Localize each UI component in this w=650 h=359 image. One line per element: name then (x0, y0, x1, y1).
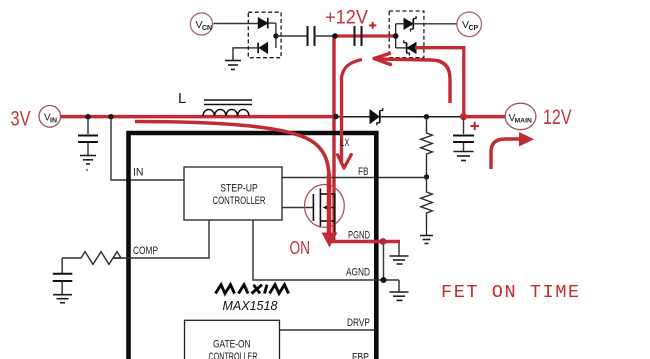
gate-on controller block U1b (185, 320, 280, 359)
step-up controller block U1a (184, 167, 282, 220)
resistor R1 (421, 117, 433, 177)
red annotation: swoosh arrowhead at PGND (322, 233, 338, 248)
capacitor C1 (308, 26, 315, 46)
svg-text:3V: 3V (11, 108, 32, 131)
ground (CIN) (80, 156, 96, 165)
inductor L coil (203, 110, 249, 116)
source VMAIN (505, 103, 536, 129)
polarity + of COUT (471, 122, 479, 130)
wire gate (282, 207, 313, 209)
ground (PGND) (390, 242, 409, 265)
capacitor COUT (453, 118, 474, 151)
diode D2a (schottky) (396, 16, 416, 31)
svg-text:+12V: +12V (325, 6, 368, 28)
dashed box charge-pump diodes D1 (248, 12, 281, 58)
svg-text:PGND: PGND (348, 230, 370, 242)
inductor L core (204, 100, 252, 105)
output node (460, 113, 467, 120)
ground (AGND) (390, 280, 409, 300)
red wire +12V node to D2 box (335, 34, 396, 37)
red wire output node to VMAIN (462, 115, 506, 119)
wire diode junction (275, 23, 277, 48)
svg-text:LX: LX (340, 137, 350, 149)
red annotation: loop arrow pointing left (379, 59, 450, 103)
rail LX to output (black) (335, 116, 464, 118)
red wire +12V node down to LX rail (332, 36, 335, 233)
svg-text:FB: FB (358, 166, 369, 178)
wire VCN to diode box (214, 23, 259, 25)
svg-text:CONTROLLER: CONTROLLER (213, 195, 266, 207)
wire DRVP (280, 329, 376, 331)
svg-text:IN: IN (133, 167, 144, 179)
red annotation: swoosh current path into FET (135, 122, 329, 179)
svg-text:MAIN: MAIN (515, 117, 532, 124)
red annotation: PGND line (331, 240, 400, 243)
svg-text:CN: CN (202, 25, 212, 32)
wire D2 junction (395, 24, 397, 48)
3V rail (red) (61, 115, 336, 119)
diode D2b (schottky) (396, 40, 416, 55)
node at D2 input (393, 33, 399, 39)
node at D1 output (273, 33, 278, 38)
wire FB (282, 177, 427, 179)
rectifier diode D3 (schottky) (370, 108, 383, 125)
ground (D1b) (225, 61, 241, 70)
node input cap (85, 114, 90, 119)
wire to ground from D1b (233, 48, 248, 60)
svg-text:DRVP: DRVP (347, 317, 370, 329)
wire D2a to VCP (413, 23, 457, 25)
svg-text:FET ON TIME: FET ON TIME (441, 282, 581, 303)
source VCP (457, 12, 482, 37)
resistor R2 (421, 177, 433, 230)
svg-text:COMP: COMP (133, 245, 158, 257)
MAXIM logo (216, 285, 289, 294)
node AGND (381, 277, 387, 283)
node IN pin (108, 114, 113, 119)
wire COMP (113, 220, 209, 258)
svg-text:L: L (178, 90, 186, 107)
resistor RCOMP (62, 252, 121, 265)
LX node (333, 114, 338, 119)
IC MAX1518 outline (129, 133, 377, 359)
transistor Q1 internal NMOS (305, 172, 345, 241)
wire PGND-AGND link (383, 242, 385, 281)
node +12V (332, 33, 338, 39)
node FB divider top (424, 114, 429, 119)
node FB (424, 174, 429, 179)
dashed box charge-pump diodes D2 (389, 11, 424, 58)
polarity + of C2 (369, 22, 376, 29)
svg-text:GATE-ON: GATE-ON (213, 339, 251, 351)
wire node to C1 (276, 35, 307, 37)
source VIN (39, 106, 61, 128)
wire AGND from controller (253, 220, 399, 280)
svg-text:IN: IN (50, 117, 57, 124)
svg-text:CONTROLLER: CONTROLLER (209, 351, 258, 359)
capacitor CIN (78, 118, 98, 155)
ground (COUT) (454, 152, 474, 161)
svg-text:CP: CP (469, 25, 479, 32)
capacitor C2 (355, 26, 362, 46)
red annotation: PGND node (380, 238, 387, 245)
svg-text:ON: ON (290, 238, 311, 258)
wire IN pin (111, 117, 184, 180)
diode D1b (248, 43, 267, 54)
red annotation: output curl arrow (491, 139, 519, 169)
wire C1 to +12V node (315, 35, 336, 37)
diode D1a (258, 18, 276, 29)
svg-text:12V: 12V (543, 106, 572, 129)
wire PGND (black under red) (375, 241, 399, 243)
svg-text:FBP: FBP (352, 352, 369, 359)
capacitor CCOMP (53, 258, 73, 294)
red annotation: LX arrow (342, 60, 363, 163)
red wire D2b to output node (415, 48, 464, 116)
ground (R2) (420, 230, 433, 244)
svg-text:MAX1518: MAX1518 (223, 299, 278, 313)
svg-text:AGND: AGND (346, 267, 370, 279)
source VCN (190, 13, 212, 35)
ground (CCOMP) (53, 295, 72, 303)
svg-text:STEP-UP: STEP-UP (220, 183, 258, 195)
stray dot artifact (86, 169, 88, 171)
